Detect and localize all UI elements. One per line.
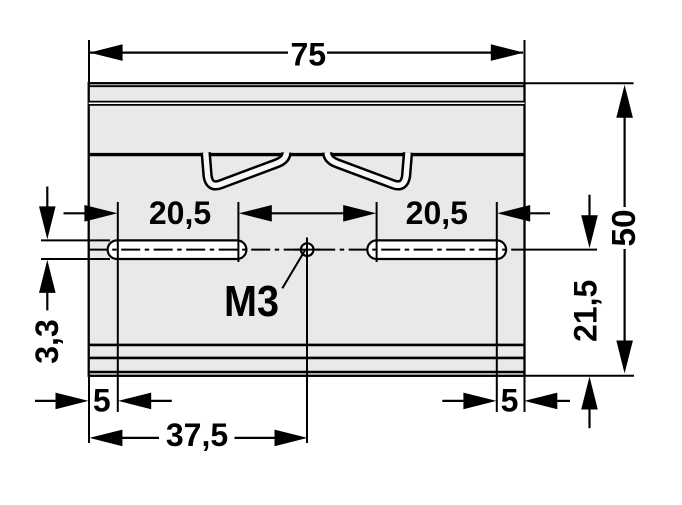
svg-text:20,5: 20,5 (149, 195, 211, 231)
svg-text:20,5: 20,5 (406, 195, 468, 231)
svg-text:5: 5 (501, 383, 519, 419)
svg-text:37,5: 37,5 (166, 417, 228, 453)
svg-text:75: 75 (291, 37, 327, 73)
svg-text:3,3: 3,3 (29, 319, 65, 363)
svg-text:21,5: 21,5 (568, 280, 604, 342)
svg-text:5: 5 (93, 383, 111, 419)
svg-text:50: 50 (606, 209, 643, 246)
svg-text:M3: M3 (224, 277, 279, 326)
